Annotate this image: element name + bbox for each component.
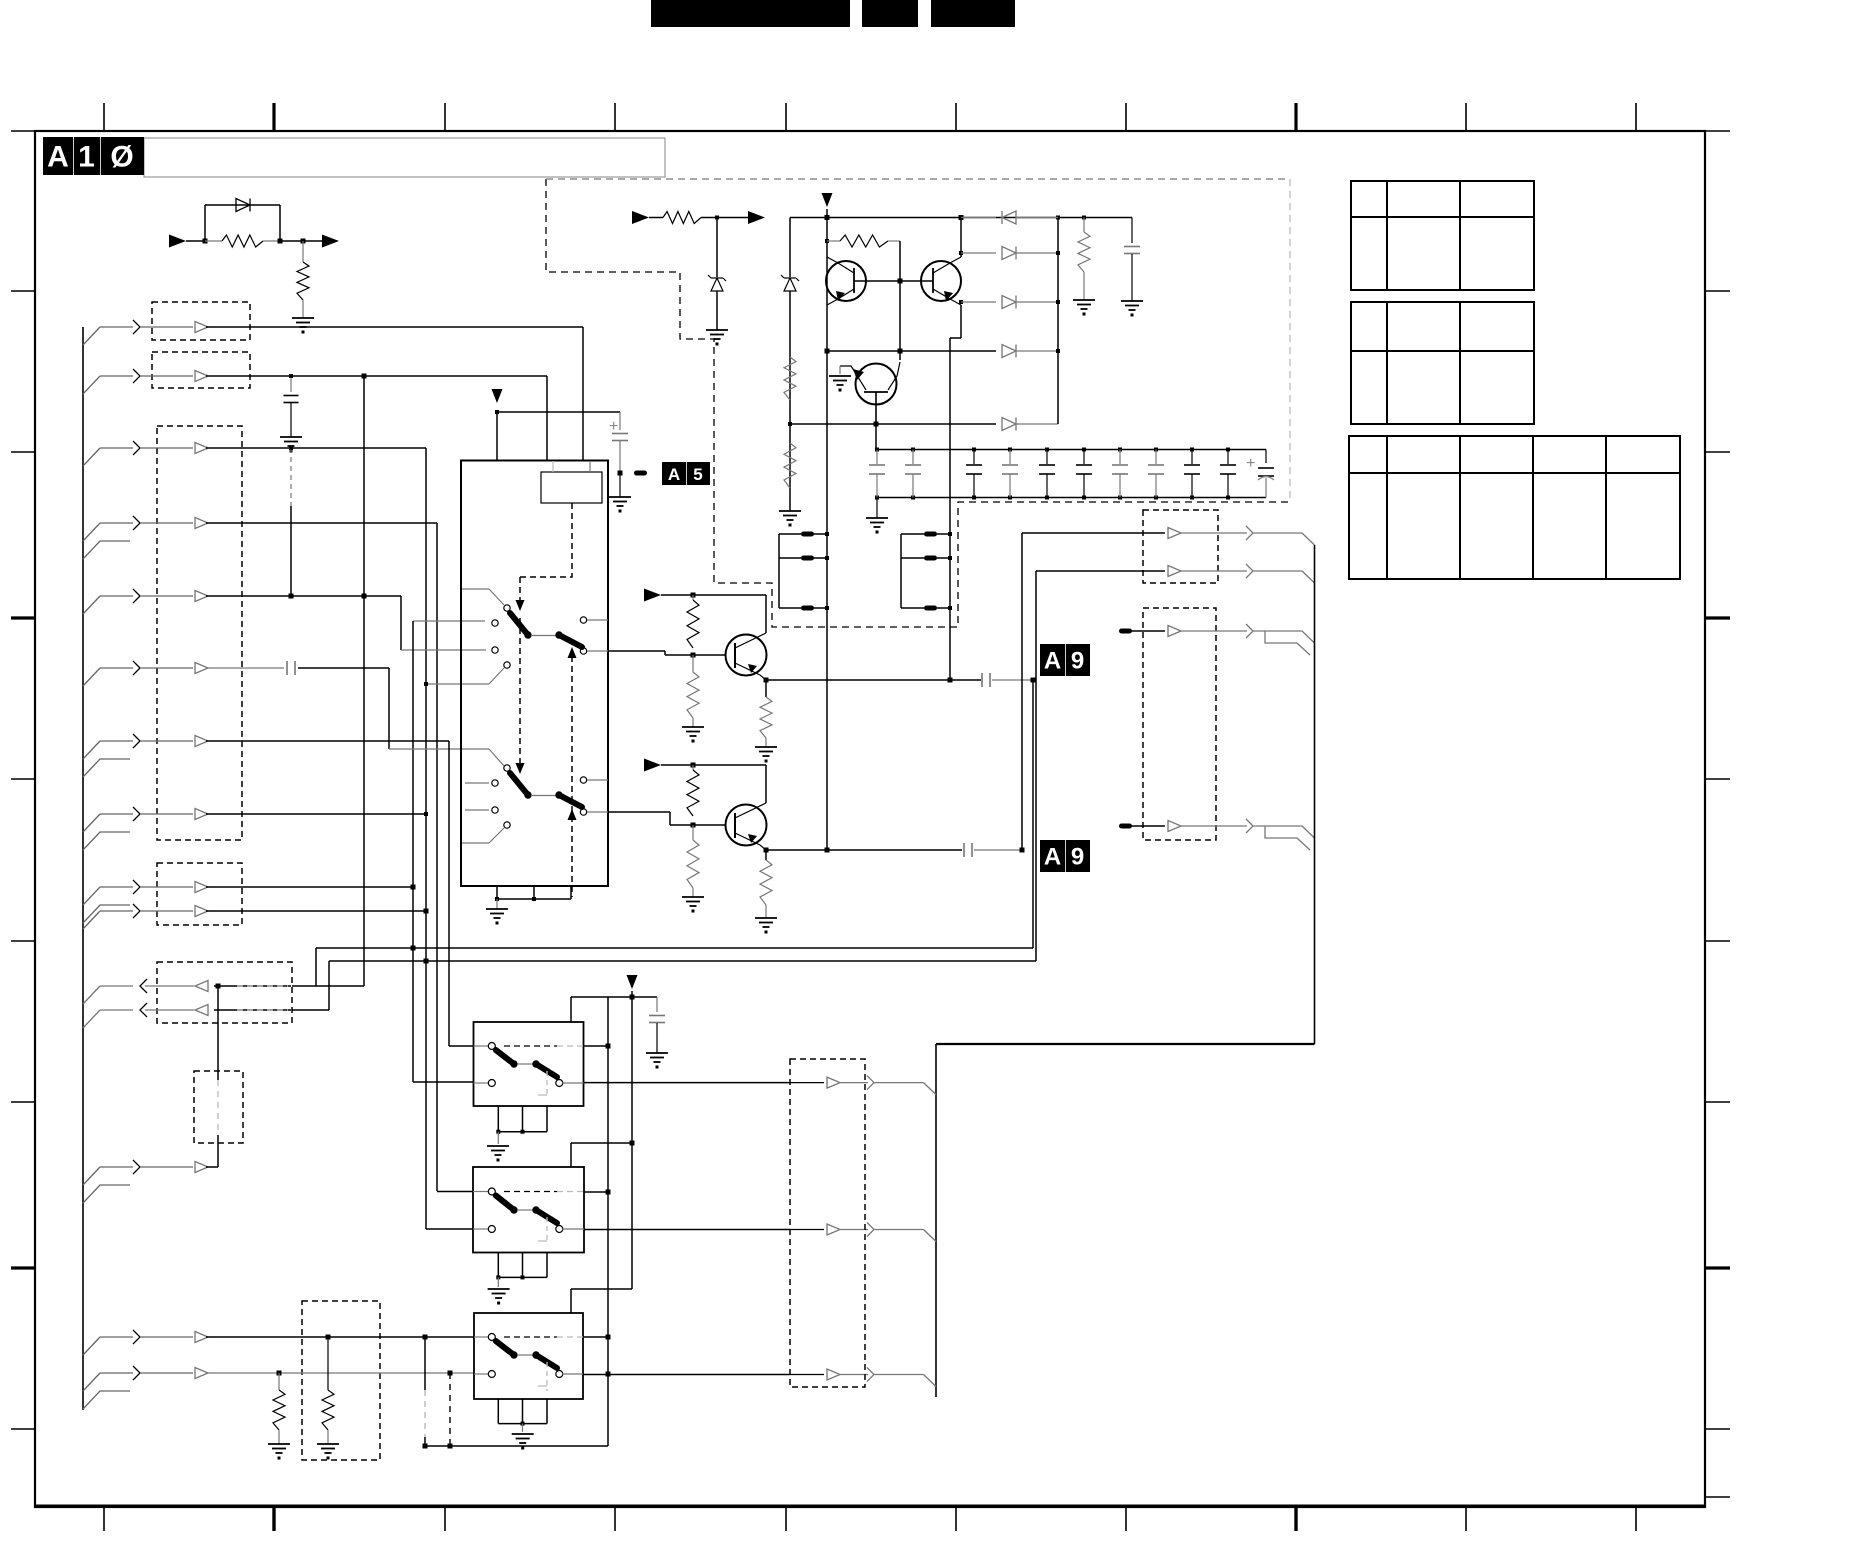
svg-text:Ø: Ø xyxy=(110,141,133,174)
svg-text:1: 1 xyxy=(78,141,95,174)
svg-text:A: A xyxy=(1044,648,1061,675)
svg-text:5: 5 xyxy=(693,465,702,484)
svg-text:9: 9 xyxy=(1071,648,1084,675)
svg-text:+: + xyxy=(609,418,618,435)
svg-text:+: + xyxy=(1246,455,1255,472)
svg-text:A: A xyxy=(47,141,69,174)
svg-text:A: A xyxy=(1044,844,1061,871)
svg-text:A: A xyxy=(668,465,680,484)
svg-text:9: 9 xyxy=(1071,844,1084,871)
